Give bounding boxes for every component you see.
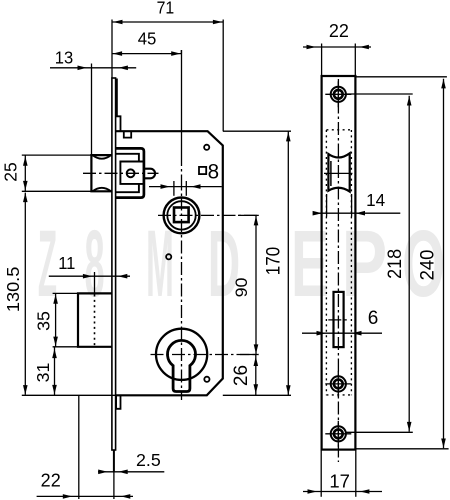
spindle vertical axis lower [181,198,183,401]
follower outer circle [164,198,200,234]
dim 22bl line [37,495,133,497]
dim 11 arrow left [83,274,93,279]
dim 14 arrow left [313,211,323,216]
dim 14 ext right [351,194,353,217]
svg-text:240: 240 [417,250,439,281]
svg-text:13: 13 [55,47,73,68]
latch tail [120,162,143,184]
svg-text:22: 22 [41,471,61,491]
dim 45 line [112,53,181,55]
dim 11 arrow right [118,274,128,279]
deadbolt (thrown) [78,293,112,346]
dim 170 line [287,131,289,395]
case hidden top [326,129,351,131]
label square symbol [199,167,206,174]
body bottom ext [22,394,116,396]
case hidden line right [350,130,352,395]
dim 25 line [24,155,26,191]
latch front inner left line [330,161,332,186]
dim 22bl ext left [78,395,80,499]
dim 26 arrow bottom [254,384,259,394]
dim 71 ext right [222,20,224,132]
latch bevel arc bottom [93,188,112,192]
faceplate (side view) [112,78,116,450]
plate vertical centerline [337,79,339,462]
latch axis front view [324,172,352,174]
svg-text:22: 22 [329,21,349,41]
latch rivet [127,169,135,177]
dim 22tr arrow right [359,45,369,50]
dim 22tr line [303,46,371,48]
front plate outline [322,76,356,450]
dim 240 ext bottom [356,448,449,450]
deadbolt slot [334,292,344,347]
dim 14 arrow right [356,211,366,216]
latch axis centerline [83,172,159,174]
dim 90 arrow top [254,216,259,226]
dim 6 arrow right [352,331,362,336]
case bottom tab [116,395,120,409]
svg-text:11: 11 [58,252,75,273]
svg-text:E: E [291,210,329,317]
screw hole top inner [334,90,343,99]
follower axis centerline [158,214,259,216]
screw hole bottom outer [331,426,346,441]
screw hole middle outer [331,376,346,391]
screw hole bottom crosshair v [337,421,339,447]
dim 130.5 arrow top [23,193,28,203]
dim 35 ext top [53,292,78,294]
watermark text [38,210,445,317]
dim 45 ext right [180,50,182,54]
svg-text:35: 35 [34,311,54,331]
svg-text:6: 6 [368,308,379,329]
dim 22tr ext left [321,44,323,77]
latch box inner bottom [116,184,139,192]
dim 218 arrow top [407,96,412,106]
dim 17 line [303,491,382,493]
dim sq8 line [149,186,222,188]
dim 31 arrow top [52,349,57,359]
latch front spool [328,153,349,191]
euro profile cylinder hole [168,340,196,391]
cylinder axis centerline [151,354,259,356]
dim 25 arrow top [23,156,28,166]
dim 22bl arrow left [63,494,73,499]
screw hole middle crosshair h [325,383,351,385]
svg-text:170: 170 [261,247,284,275]
dim 71 arrow right [213,20,223,25]
dim 25 arrow bottom [23,181,28,191]
dim 71 line [112,21,223,23]
dim sq8 ext left [173,181,175,196]
screw hole bottom inner [334,429,343,438]
dim 11 ext [94,272,96,293]
screw hole middle inner [334,380,343,389]
dim 35 line [55,293,57,346]
dim 35 arrow top [53,294,58,304]
dim sq8 arrow right [191,184,201,189]
latch box inner top [116,154,139,162]
dim 11 line [49,275,130,277]
svg-text:25: 25 [1,162,21,181]
dim 35 ext bottom [53,346,78,348]
dim 240 line [443,79,445,449]
svg-text:D: D [208,210,240,316]
cylinder outer circle [156,329,207,380]
dim 90 arrow bottom [254,344,259,354]
follower square hole [174,208,189,223]
dim 26 line [255,355,257,396]
dim sq8 ext right [185,181,187,196]
dim 218 ext bottom [346,431,413,433]
svg-text:31: 31 [33,363,53,383]
dim 31 arrow bottom [52,385,57,395]
lock case outline [116,131,223,395]
dim 14 ext left [326,194,328,217]
screw hole middle crosshair v [337,371,339,397]
svg-text:14: 14 [366,190,385,211]
dim 17 arrow right [360,489,370,494]
dim sq8 arrow left [161,184,171,189]
dim 22bl arrow right [121,494,131,499]
svg-text:8: 8 [208,160,219,183]
latch box outer [116,148,144,197]
svg-text:218: 218 [384,249,406,279]
dim 2.5 line [98,471,164,473]
svg-text:71: 71 [157,0,175,18]
dim 13 line [50,67,136,69]
svg-text:90: 90 [231,277,251,297]
hole top right [204,145,209,150]
dim 6 arrow left [317,331,327,336]
dim 240 ext top [356,76,447,78]
case top lug [124,131,131,137]
case top stem [117,79,121,132]
svg-text:2.5: 2.5 [136,450,161,470]
dim 2.5 arrow left [98,470,108,475]
svg-text:26: 26 [231,365,252,386]
dim 218 line [408,96,410,432]
screw hole bottom crosshair h [325,433,351,435]
dim 17 ext left [320,450,322,497]
latch pin stub [144,169,155,179]
dim 13 arrow right [118,66,128,71]
spindle vertical axis upper [181,50,183,150]
dim 240 arrow top [441,79,446,89]
dim 2.5 arrow right [118,470,128,475]
cylinder axis ext solid [240,354,259,356]
dim 71 arrow left [113,20,123,25]
dim 240 arrow bottom [441,439,446,449]
follower inner circle [167,201,195,229]
dim 170 arrow top [286,132,291,142]
dim 25 ext bottom [22,190,92,192]
dim 90 line [255,215,257,354]
dim 35 arrow bottom [53,337,58,347]
case hidden bottom [326,394,351,396]
slot axis tick [328,319,349,321]
dim 31 line [54,347,56,395]
screw hole top crosshair h [325,93,351,95]
dim 45 arrow right [171,51,181,56]
svg-text:45: 45 [138,28,157,49]
latch bevel arc top [93,155,112,159]
spindle vertical axis mid [181,150,183,198]
body bottom ext right [223,394,291,396]
dim 13 ext [91,64,93,155]
latch bolt head [91,155,111,191]
svg-text:17: 17 [329,471,350,492]
dim 130.5 line [24,193,26,395]
dim 45 arrow left [113,51,123,56]
dim 17 arrow left [308,489,318,494]
body top ext right [223,130,291,132]
dim 25 ext top [22,154,92,156]
svg-text:130.5: 130.5 [3,267,23,313]
dim 170 arrow bottom [286,385,291,395]
dim 130.5 arrow bottom [23,385,28,395]
deadbolt hidden line [94,295,96,347]
dim 218 arrow bottom [407,422,412,432]
svg-text:P: P [342,210,388,317]
dim 22tr arrow left [307,45,317,50]
dim 26 arrow top [254,357,259,367]
screw hole top crosshair v [337,81,339,107]
dim 22bl ext right lower [113,472,115,499]
dim 218 ext top [346,93,413,95]
screw hole top outer [331,87,346,102]
hole center [166,254,171,259]
hole bottom right [204,377,209,382]
follower axis ext solid [238,214,259,216]
dim 6 line [302,332,382,334]
dim 17 ext right [355,450,357,497]
dim 14 line [314,212,401,214]
dim 13 arrow left [78,66,88,71]
dim 71 ext left [111,20,113,78]
dim 22tr ext right [354,44,356,77]
dim 22bl ext right [113,450,115,472]
case hidden line left [325,130,327,395]
